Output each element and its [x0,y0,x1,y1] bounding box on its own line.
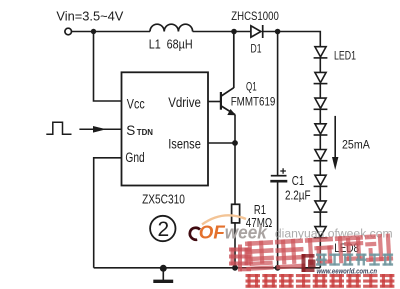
wire [319,186,321,201]
node collector junction [231,29,237,35]
watermark script o [190,228,200,240]
svg-text:ZX5C310: ZX5C310 [142,193,185,207]
svg-text:FMMT619: FMMT619 [231,95,276,109]
node C1 bottom junction [275,265,281,271]
watermark red text yiduotuo peixun [245,233,393,271]
wire Gnd pin to left rail [94,158,122,268]
wire diode to LED column corner [263,32,321,47]
watermark teal text dianzi gongcheng shijie [316,254,393,266]
svg-text:Gnd: Gnd [125,150,144,165]
svg-text:OFweek: OFweek [199,221,269,242]
svg-text:TDN: TDN [137,127,153,137]
LED3 [314,98,328,109]
wire [319,135,321,150]
wire [319,84,321,99]
svg-text:Q1: Q1 [246,79,257,93]
svg-text:Vin=3.5~4V: Vin=3.5~4V [56,8,123,23]
wire [319,109,321,124]
figure number circle 2 [150,216,175,241]
LED5 [314,150,328,161]
watermark red tagline shepin he tianxian sheji zhuanjia [246,274,395,288]
wire R1 to bottom rail [234,223,236,268]
wire LED8 to bottom rail [319,238,321,268]
LED4 [314,124,328,135]
ground [160,265,167,272]
pulse source symbol [46,122,71,134]
node junction Vin [91,29,96,34]
watermark red char dian [229,245,251,272]
svg-text:Vdrive: Vdrive [168,95,201,110]
svg-text:C1: C1 [292,174,305,188]
svg-text:Isense: Isense [168,137,201,152]
svg-text:2.2µF: 2.2µF [285,188,311,202]
LED2 [314,72,328,83]
svg-text:LED1: LED1 [334,51,356,63]
svg-text:Vcc: Vcc [127,97,145,112]
wire Vdrive to transistor base [208,101,221,103]
LED7 [314,201,328,212]
watermark OFweek swoosh [202,215,246,224]
node emitter/Isense junction [232,140,238,146]
svg-text:ZHCS1000: ZHCS1000 [231,9,279,23]
wire Vin junction down to Vcc [94,32,122,102]
LED1 [314,47,328,58]
LED6 [314,175,328,186]
input terminal circle [65,28,72,35]
wire [319,161,321,176]
LED8 [314,227,328,238]
wire inductor to diode [193,31,251,33]
resistor R1 [232,204,240,223]
svg-text:L1 68µH: L1 68µH [149,38,193,52]
capacitor C1 [277,32,279,176]
wire pulse to S pin with arrowhead [79,128,121,130]
watermark eeworld logo mark [302,254,316,272]
svg-text:S: S [126,123,135,138]
svg-text:R1: R1 [254,203,266,217]
op-amp / driver IC U1 box [122,72,209,185]
wire Isense pin [208,142,235,144]
wire top from terminal to inductor [72,31,150,33]
svg-text:2: 2 [158,218,170,241]
25mA current arrow [334,116,336,158]
wire [319,58,321,73]
inductor L1 [150,24,193,31]
svg-text:D1: D1 [251,41,262,55]
node R1 bottom junction [232,265,238,271]
wire [319,212,321,227]
transistor Q1 [221,32,236,205]
node C1 junction top [275,29,281,35]
wire bottom rail [94,267,321,269]
diode D1 [251,25,263,38]
svg-text:25mA: 25mA [342,137,370,151]
